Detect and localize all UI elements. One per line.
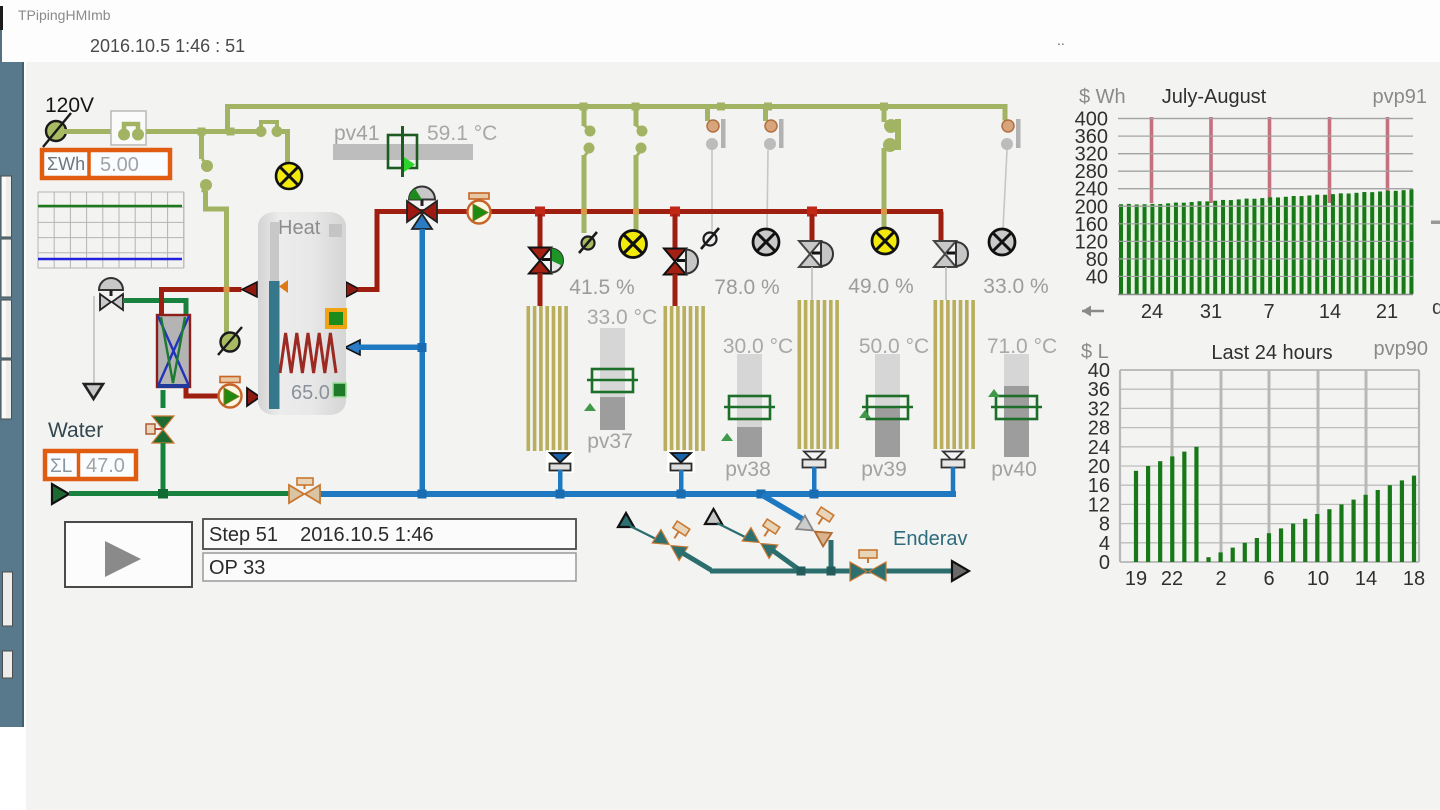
svg-text:41.5 %: 41.5 % <box>569 276 634 299</box>
top line junction J6 <box>764 103 772 111</box>
pv41 slider bar <box>333 144 473 160</box>
chart pvp91 gridlines over bars <box>1118 119 1413 277</box>
lamp L1 yellow <box>620 231 647 258</box>
thin teal wire to valve EV2 <box>717 523 745 537</box>
svg-text:10: 10 <box>1307 568 1329 590</box>
svg-text:..: .. <box>1057 32 1065 48</box>
wire jog down to sensor T0 <box>206 191 227 333</box>
blue junction JB1 <box>418 490 427 499</box>
trend green line <box>38 205 182 208</box>
svg-text:65.0: 65.0 <box>291 382 330 404</box>
chart pvp90 bars <box>1134 447 1416 562</box>
svg-text:47.0: 47.0 <box>86 455 125 477</box>
green main pipe <box>69 491 290 496</box>
chart pvp91 pale band <box>1119 191 1410 294</box>
indicator pv38 setpoint arrow <box>721 433 733 441</box>
teal inlet triangle 1 <box>618 513 634 527</box>
wire contact to lamp corner <box>282 132 288 164</box>
blue arrow into tank coil <box>345 340 360 355</box>
drain D2 radiator R2 <box>667 450 695 491</box>
bus junction J2 <box>227 128 235 136</box>
tank top-right small box <box>329 224 342 237</box>
heat exchanger HX1 <box>157 315 190 388</box>
teal valve EV1 <box>652 516 696 560</box>
breaker box K1 <box>111 111 146 145</box>
radiator valve V1 (41.5%) <box>529 248 563 274</box>
sidebar buttons <box>1 176 12 237</box>
svg-text:pv37: pv37 <box>587 430 633 453</box>
water counter box SigmaL <box>45 451 136 479</box>
svg-text:Last 24 hours: Last 24 hours <box>1211 342 1332 364</box>
blue junction JB4 <box>810 490 819 499</box>
contact S1 closed on bus <box>256 122 283 137</box>
three-way valve TV1 dome <box>409 187 435 207</box>
svg-text:d: d <box>1432 297 1440 319</box>
outlet arrow <box>952 561 969 581</box>
svg-text:78.0 %: 78.0 % <box>714 276 779 299</box>
svg-text:Step 51 2016.10.5 1:46: Step 51 2016.10.5 1:46 <box>209 524 434 546</box>
op display box <box>203 553 576 581</box>
blue junction JB3 <box>677 490 686 499</box>
tank heater enable square <box>327 310 345 327</box>
svg-text:14: 14 <box>1355 568 1377 590</box>
svg-text:ΣWh: ΣWh <box>47 154 85 174</box>
red pipe valve V1 to radiator R1 <box>538 273 543 306</box>
open contact SB <box>763 108 784 150</box>
svg-text:pvp90: pvp90 <box>1374 338 1429 360</box>
trend blue line <box>38 258 182 261</box>
svg-text:July-August: July-August <box>1162 86 1267 108</box>
svg-text:pv39: pv39 <box>861 458 907 481</box>
blue junction JB2 <box>556 490 565 499</box>
svg-text:$ Wh: $ Wh <box>1079 86 1126 108</box>
radiator valve V3 (49.0%) gray <box>799 241 833 267</box>
red junction JV2 <box>670 207 680 217</box>
svg-text:33.0 °C: 33.0 °C <box>587 306 657 329</box>
gray inlet triangle 2 <box>705 509 722 524</box>
indicator pv39 setpoint arrow <box>859 410 871 418</box>
top line junction J5 <box>717 103 725 111</box>
red stub to valve V1 <box>538 214 543 248</box>
red junction JV3 <box>807 207 817 217</box>
tan valve WV2 on main <box>289 478 320 503</box>
svg-text:pv38: pv38 <box>725 458 771 481</box>
tank bottom-right green box <box>333 383 346 397</box>
svg-text:2: 2 <box>1215 568 1226 590</box>
green pipe WV1 to main <box>161 443 166 492</box>
red pipe tank to main <box>358 212 943 290</box>
chart pvp90 y labels <box>1088 360 1110 574</box>
three-way valve TV1 body <box>407 201 437 229</box>
chart pvp91 week lines <box>1152 117 1388 203</box>
chart pvp91 baseline <box>1118 294 1413 296</box>
drop wire and contact S4 <box>634 108 648 231</box>
svg-text:ΣL: ΣL <box>50 456 72 477</box>
pump P2 <box>219 377 242 408</box>
120V bus wire <box>146 129 256 134</box>
svg-text:49.0 %: 49.0 % <box>848 275 913 298</box>
open contact SA <box>705 108 726 150</box>
chart pvp90 grid <box>1120 370 1419 562</box>
tank outlet arrow right <box>346 282 360 297</box>
drain D3 radiator R3 <box>803 452 826 492</box>
svg-text:18: 18 <box>1403 568 1425 590</box>
indicator pv40 valve mark <box>991 396 1042 419</box>
svg-text:40: 40 <box>1086 266 1108 288</box>
drop wire and contact S3 <box>582 108 596 233</box>
tan crossing tick T636 <box>633 209 639 215</box>
red junction JV1 <box>535 207 545 217</box>
lamp L2 gray <box>753 229 779 255</box>
sensor T1 olive <box>579 232 597 253</box>
thin wire to sensor T2 <box>711 150 713 231</box>
thin wire GV1 down <box>93 296 95 383</box>
closed contact SC green <box>882 108 902 228</box>
open contact SD <box>1001 119 1021 150</box>
gray drain triangle <box>84 384 103 399</box>
chart pvp91 y labels <box>1075 109 1108 289</box>
corner of top line down to contact SD <box>1002 107 1005 121</box>
indicator pv40 bar <box>1004 354 1029 386</box>
radiator R2 <box>664 306 705 451</box>
thin teal wire to valve EV1 <box>630 526 658 540</box>
tank level background <box>270 222 279 282</box>
radiator R4 <box>934 300 975 449</box>
svg-text:Heat: Heat <box>278 217 321 239</box>
svg-text:50.0 °C: 50.0 °C <box>859 335 929 358</box>
blue junction JB0 <box>418 343 427 352</box>
tank inlet arrow left <box>242 282 257 297</box>
step display box <box>203 519 576 549</box>
svg-text:59.1 °C: 59.1 °C <box>427 122 497 145</box>
radiator valve V4 (33.0%) gray <box>934 241 968 267</box>
radiator valve V2 (78.0%) <box>664 249 698 275</box>
indicator pv40 setpoint arrow <box>988 389 1000 397</box>
svg-text:22: 22 <box>1161 568 1183 590</box>
gray control valve GV1 dome <box>99 278 123 296</box>
green pipe GV1 to HX <box>123 301 186 318</box>
blue diagonal pipe to tan valve <box>762 495 806 521</box>
left edge dark tick <box>0 6 3 30</box>
top line junction J4 <box>632 103 640 111</box>
svg-text:14: 14 <box>1319 301 1341 323</box>
trend chart grid <box>38 192 184 268</box>
gray control valve GV1 body <box>100 294 123 310</box>
teal pipe EV2 to main <box>772 550 801 571</box>
lamp L0 yellow <box>276 163 302 189</box>
pv41 valve mark <box>388 126 417 177</box>
water inlet arrow <box>52 484 69 504</box>
top line junction J3 <box>580 103 588 111</box>
teal stub below EV3 <box>829 540 834 571</box>
svg-text:0: 0 <box>1099 552 1110 574</box>
radiator R3 <box>798 300 839 449</box>
thin wire valve V3 to radiator R3 <box>811 267 813 300</box>
svg-text:5.00: 5.00 <box>100 154 139 176</box>
blue riser from valve TV1 <box>420 229 426 495</box>
svg-text:21: 21 <box>1376 301 1398 323</box>
svg-text:Enderav: Enderav <box>893 528 968 550</box>
chart pvp91 bars <box>1119 189 1413 294</box>
chart pvp91 grid <box>1118 119 1413 277</box>
indicator pv37 setpoint arrow <box>584 403 596 411</box>
lamp L3 gray <box>989 229 1015 255</box>
thin wire to lamp L2 <box>767 150 768 230</box>
drop wire from J1 <box>199 133 204 159</box>
svg-text:TPipingHMImb: TPipingHMImb <box>18 7 111 23</box>
power source symbol <box>43 113 71 147</box>
green dashed pipe HX to valve WV1 <box>161 390 166 415</box>
energy counter box SigmaWh <box>42 150 170 178</box>
teal valve EV2 <box>742 514 786 558</box>
red pipe valve V2 to radiator R2 <box>673 274 678 306</box>
svg-text:30.0 °C: 30.0 °C <box>723 335 793 358</box>
svg-text:6: 6 <box>1263 568 1274 590</box>
indicator pv38 bar <box>737 354 762 427</box>
indicator pv39 bar <box>875 354 900 407</box>
svg-text:24: 24 <box>1141 301 1163 323</box>
svg-text:pv41: pv41 <box>334 122 380 145</box>
indicator pv38 valve mark <box>724 396 775 419</box>
riser to top distribution line <box>225 104 230 132</box>
svg-text:71.0 °C: 71.0 °C <box>987 335 1057 358</box>
water valve WV1 green <box>146 416 174 443</box>
drain D1 radiator R1 <box>546 450 574 491</box>
red pipe HX to pump P2 <box>186 388 219 396</box>
sensor T2 gray <box>701 228 719 249</box>
red stub to valve V2 <box>673 214 678 248</box>
tan crossing tick T226 <box>224 287 230 293</box>
vertical contact S2 <box>200 159 213 192</box>
tank level bar teal <box>269 281 280 409</box>
svg-text:31: 31 <box>1200 301 1222 323</box>
chart pvp91 x labels <box>1141 301 1398 323</box>
top distribution line <box>225 104 1005 109</box>
top line junction J7 <box>880 103 888 111</box>
red stub to valve V3 <box>810 214 815 242</box>
svg-text:OP 33: OP 33 <box>209 557 265 579</box>
tan crossing tick T884 <box>881 209 887 215</box>
svg-text:19: 19 <box>1125 568 1147 590</box>
left sidebar <box>0 62 24 727</box>
teal main pipe <box>710 569 952 574</box>
top title bar background <box>0 0 1440 62</box>
drain D4 radiator R4 <box>942 452 965 495</box>
blue junction JB5 <box>757 490 766 499</box>
lamp L4 yellow <box>872 228 898 254</box>
thin wire valve V4 to radiator R4 <box>945 267 947 300</box>
white area below sidebar <box>0 727 24 810</box>
svg-text:7: 7 <box>1263 301 1274 323</box>
right edge dash fragment <box>1431 221 1440 225</box>
svg-text:Water: Water <box>48 419 103 442</box>
svg-text:33.0 %: 33.0 % <box>983 275 1048 298</box>
indicator pv37 bar <box>600 328 625 397</box>
red pipe HX to tank arrow <box>162 290 242 318</box>
thin wire to lamp L3 <box>1003 150 1007 229</box>
green junction JG1 <box>158 489 168 499</box>
tank heating coil <box>280 333 336 373</box>
pump P1 <box>468 193 491 224</box>
tan crossing tick T584 <box>581 209 587 215</box>
blue pipe tank to riser <box>359 345 422 351</box>
red corner down to valve V4 <box>939 212 944 244</box>
chart pvp90 x labels <box>1125 568 1425 590</box>
indicator pv39 valve mark <box>862 396 913 419</box>
svg-text:pv40: pv40 <box>991 458 1037 481</box>
white gap right of sidebar <box>24 62 27 810</box>
teal junction JT2 <box>827 567 836 576</box>
bus junction J1 <box>198 128 206 136</box>
chart pvp91 back arrow <box>1082 306 1104 317</box>
tank level marker orange <box>279 280 288 293</box>
blue main pipe <box>319 491 956 497</box>
tan valve EV3 diagonal <box>796 502 840 546</box>
wire from source to breaker <box>64 129 111 134</box>
teal outlet valve EV4 <box>850 550 886 581</box>
teal junction JT1 <box>797 567 806 576</box>
play button <box>65 522 192 587</box>
flow arrow after pump P2 <box>247 388 260 406</box>
sensor T0 <box>218 327 242 355</box>
svg-text:2016.10.5 1:46 : 51: 2016.10.5 1:46 : 51 <box>90 36 245 56</box>
indicator pv37 valve mark <box>587 369 638 392</box>
radiator R1 <box>527 306 568 451</box>
teal pipe EV1 to main <box>681 552 711 570</box>
svg-text:pvp91: pvp91 <box>1373 86 1428 108</box>
